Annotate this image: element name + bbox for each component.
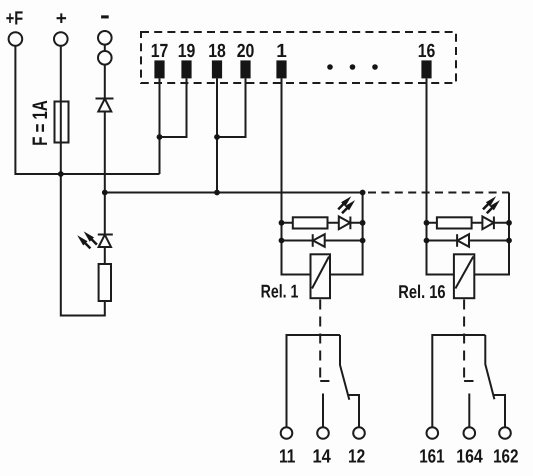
- svg-text:F = 1A: F = 1A: [29, 100, 52, 146]
- svg-text:18: 18: [208, 41, 226, 62]
- svg-text:12: 12: [348, 446, 365, 467]
- relay 16 contact blade: [485, 335, 494, 399]
- wire relay 16 resistor row: [427, 222, 510, 224]
- terminal 14: [317, 427, 329, 439]
- diode V1 reverse polarity protection: [96, 99, 114, 112]
- node relay 16 right diode row: [506, 238, 512, 244]
- node pins 18-20: [214, 134, 220, 140]
- LED power indicator emission arrows: [84, 239, 97, 249]
- terminal +: [54, 32, 68, 46]
- fuse F1: [55, 102, 69, 143]
- relay 16 LED: [482, 217, 494, 230]
- svg-text:20: 20: [237, 41, 255, 62]
- wire LED to resistor R1: [104, 247, 106, 264]
- wire pin 19 down joining pin 17: [160, 78, 187, 137]
- node relay 1 left resistor row: [279, 220, 285, 226]
- svg-text:1: 1: [276, 41, 287, 62]
- relay 16 NO contact stub terminal 164: [468, 394, 470, 428]
- wire pin 1 down to relay 1 coil left: [282, 78, 311, 274]
- pin 18: [212, 60, 222, 78]
- relay 1 dashed actuator link: [319, 300, 321, 382]
- minus rail dashed continuation to relay 16: [368, 192, 509, 194]
- node pins 17-19: [157, 134, 163, 140]
- wire - terminal to diode V1: [104, 64, 106, 98]
- wire relay 1 diode row: [282, 240, 363, 242]
- pin 20: [240, 60, 250, 78]
- node fused positive / +F rail: [58, 171, 64, 177]
- relay 1 NO contact stub terminal 14: [322, 394, 324, 428]
- node relay 16 left resistor row: [424, 220, 430, 226]
- relay 1 LED: [339, 217, 351, 230]
- label -: [101, 15, 109, 18]
- node relay 16 right resistor row: [506, 220, 512, 226]
- wire relay 1 right vertical to coil: [330, 193, 363, 275]
- svg-text:Rel. 1: Rel. 1: [261, 281, 299, 302]
- svg-text:161: 161: [419, 446, 445, 467]
- node minus rail at relay 1: [360, 190, 366, 196]
- relay 1 resistor: [293, 217, 328, 228]
- terminal 12: [353, 427, 365, 439]
- relay 16 resistor: [437, 217, 472, 228]
- pin 17: [154, 60, 164, 78]
- svg-text:17: 17: [151, 41, 169, 62]
- terminal 164: [464, 427, 476, 439]
- relay 16 dashed actuator link: [463, 300, 465, 382]
- relay module dashed outline box: [141, 32, 456, 83]
- svg-text:+F: +F: [6, 9, 23, 30]
- resistor R1 indicator series: [99, 264, 111, 301]
- svg-text:16: 16: [418, 41, 436, 62]
- node relay 1 left diode row: [279, 238, 285, 244]
- wire relay 16 right vertical to coil: [474, 193, 509, 275]
- relay 16 NC contact to terminal 162: [493, 395, 505, 427]
- svg-text:14: 14: [312, 446, 331, 467]
- terminal 162: [499, 427, 511, 439]
- pin 16: [421, 60, 431, 78]
- wire pin 18 down to minus rail: [216, 78, 218, 192]
- svg-text:164: 164: [456, 446, 483, 467]
- wire pin 16 down to relay 16 coil left: [427, 78, 454, 274]
- junction dots: [58, 134, 512, 243]
- wire - rail vertical from diode V1 to indicator LED: [104, 112, 106, 235]
- node minus rail at pin 18 wire: [214, 190, 220, 196]
- node relay 16 left diode row: [424, 238, 430, 244]
- relay 16 contact pole from terminal 161: [432, 335, 485, 427]
- relay 1 contact blade: [340, 335, 349, 400]
- wire fused positive down to indicator resistor bottom: [61, 174, 105, 316]
- terminal - upper: [98, 31, 112, 45]
- svg-text:162: 162: [493, 446, 518, 467]
- wire +F vertical then +F rail to pins 17/19: [15, 46, 159, 175]
- svg-text:+: +: [56, 9, 67, 30]
- pin 1: [276, 60, 286, 78]
- wire relay 16 diode row: [427, 240, 510, 242]
- relay 1 LED emission arrows: [338, 203, 348, 213]
- ellipsis dots between pin 1 and pin 16: [327, 64, 378, 70]
- relay 16 LED emission arrows: [483, 203, 493, 213]
- relay 16 coil: [454, 254, 474, 298]
- wire + terminal down through fuse: [60, 46, 62, 175]
- terminal +F: [9, 32, 23, 46]
- svg-text:Rel. 16: Rel. 16: [398, 281, 445, 302]
- relay 1 freewheeling diode: [313, 234, 325, 247]
- minus rail horizontal: [105, 192, 363, 194]
- wire relay 1 resistor row: [282, 222, 363, 224]
- relay 16 freewheeling diode: [457, 234, 469, 247]
- node relay 1 right diode row: [360, 238, 366, 244]
- relay 1 contact pole from terminal 11: [287, 335, 341, 427]
- LED power indicator: [98, 235, 113, 248]
- terminal 161: [427, 427, 439, 439]
- terminal - lower: [98, 51, 112, 65]
- wire between minus terminal circles: [104, 45, 106, 51]
- relay 1 coil: [311, 254, 331, 298]
- svg-text:11: 11: [279, 446, 296, 467]
- node relay 1 right resistor row: [360, 220, 366, 226]
- terminal 11: [281, 427, 293, 439]
- svg-text:19: 19: [178, 41, 196, 62]
- node minus rail at diode: [102, 190, 108, 196]
- wire pin 20 down joining pin 18: [217, 78, 246, 137]
- relay 1 NC contact to terminal 12: [348, 395, 359, 427]
- wire pin 17 down to +F rail: [159, 78, 161, 174]
- pin 19: [181, 60, 191, 78]
